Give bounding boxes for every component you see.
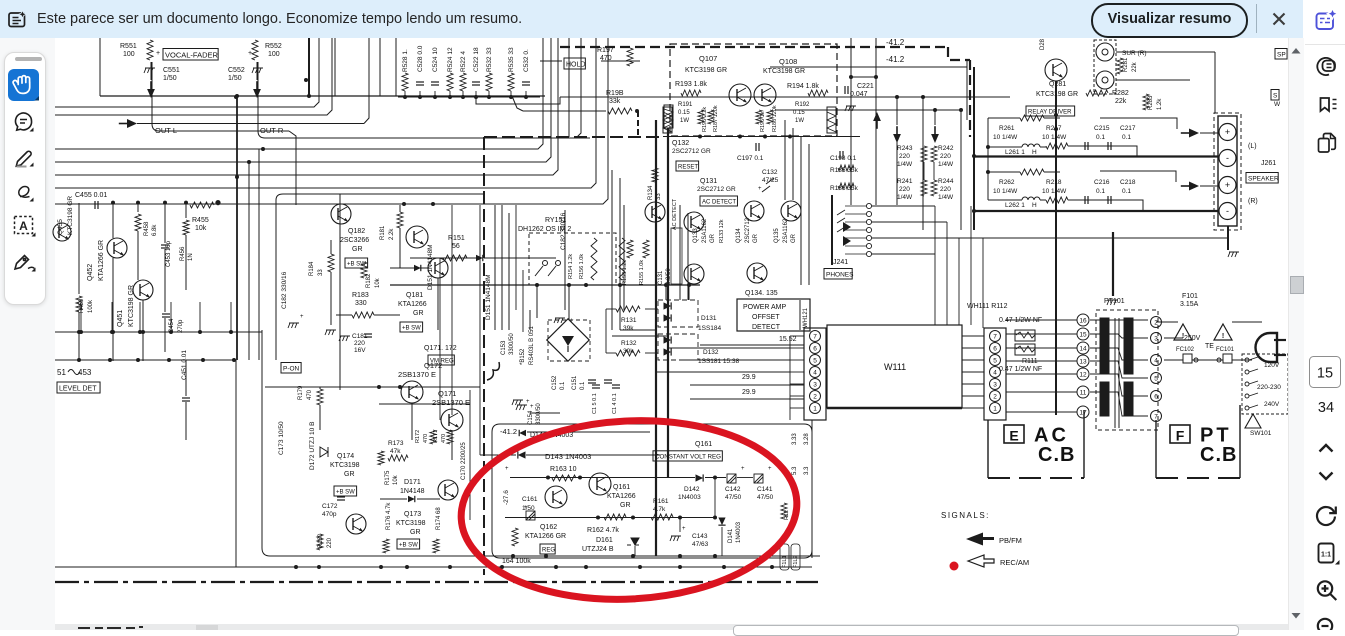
svg-text:A: A: [19, 219, 28, 233]
